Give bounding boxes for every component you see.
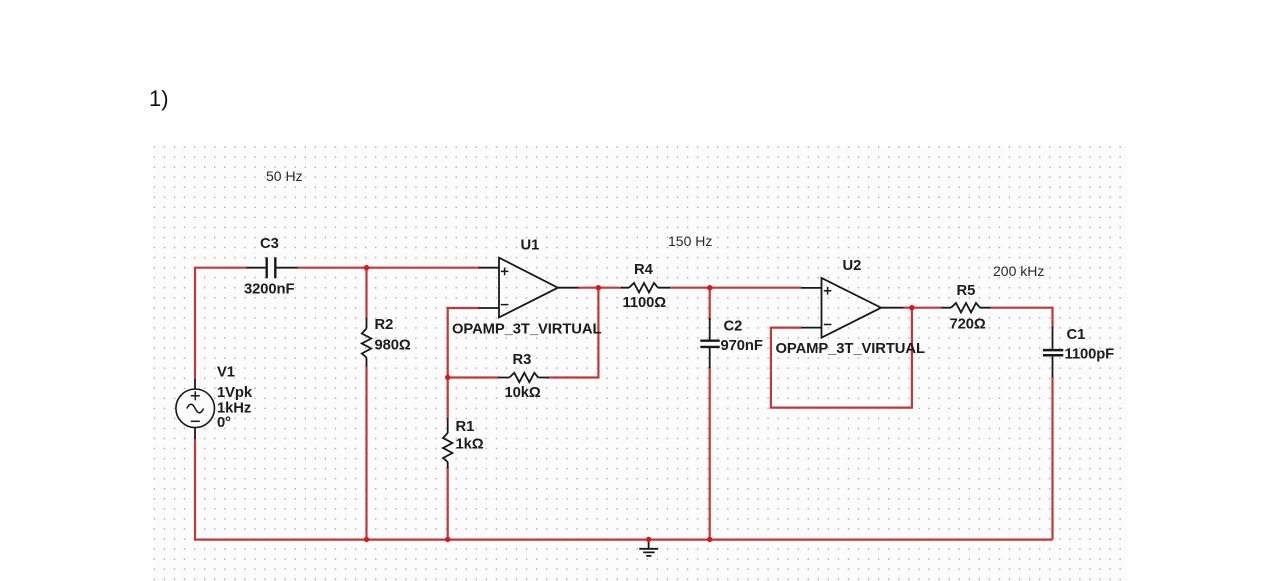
wire: R2 branch top xyxy=(365,268,367,319)
svg-text:150 Hz: 150 Hz xyxy=(668,233,712,249)
svg-text:980Ω: 980Ω xyxy=(375,338,411,354)
node: junction C3/R2 xyxy=(364,265,369,270)
schematic canvas xyxy=(153,146,1127,581)
op-amp U2 xyxy=(801,278,903,338)
svg-text:U1: U1 xyxy=(521,238,540,254)
wire: R5 to C1 branch xyxy=(990,308,1053,328)
node: junction R2/rail xyxy=(364,537,369,542)
svg-text:V1: V1 xyxy=(217,365,235,381)
svg-text:50 Hz: 50 Hz xyxy=(266,168,303,184)
svg-text:R5: R5 xyxy=(957,283,976,299)
ground xyxy=(639,539,658,556)
svg-text:1100pF: 1100pF xyxy=(1065,347,1115,363)
node: junction R1/rail xyxy=(445,537,450,542)
svg-text:R3: R3 xyxy=(513,352,532,368)
wire: R4 to U2 + input xyxy=(670,287,803,289)
capacitor C3 xyxy=(247,257,298,278)
wire: U1 inverting input to feedback node xyxy=(448,308,480,419)
node: junction U1 output/feedback xyxy=(596,285,601,290)
capacitor C2 xyxy=(700,318,719,368)
svg-text:200 kHz: 200 kHz xyxy=(993,263,1044,279)
wire: U1 output to R4 xyxy=(578,287,622,289)
svg-text:C1: C1 xyxy=(1067,327,1086,343)
wire: C2 branch top xyxy=(709,288,711,320)
node: junction U2 output/feedback xyxy=(909,305,914,310)
svg-text:R1: R1 xyxy=(456,419,475,435)
node: junction C2/rail xyxy=(707,537,712,542)
resistor R3 xyxy=(499,373,549,382)
wire: C2 branch bottom xyxy=(709,367,711,539)
svg-text:10kΩ: 10kΩ xyxy=(505,385,541,401)
resistor R4 xyxy=(621,283,670,292)
svg-text:U2: U2 xyxy=(843,258,862,274)
resistor R2 xyxy=(362,318,371,367)
wire: R3 left connection xyxy=(448,376,500,378)
svg-text:1kΩ: 1kΩ xyxy=(456,437,484,453)
wire: C3 to U1 + input xyxy=(297,267,480,269)
node: junction ground/rail xyxy=(646,537,651,542)
wire: V1 bottom to ground rail xyxy=(195,438,1053,539)
svg-text:1Vpk: 1Vpk xyxy=(217,385,253,401)
svg-text:OPAMP_3T_VIRTUAL: OPAMP_3T_VIRTUAL xyxy=(776,341,925,357)
node: junction R3/R1/U1 inverting xyxy=(445,375,450,380)
svg-text:R2: R2 xyxy=(375,317,394,333)
svg-text:1): 1) xyxy=(149,86,169,111)
AC source V1 xyxy=(176,379,215,439)
svg-text:R4: R4 xyxy=(634,262,654,278)
svg-text:970nF: 970nF xyxy=(721,338,763,354)
svg-text:0°: 0° xyxy=(217,415,231,431)
op-amp U1 xyxy=(479,258,579,318)
svg-text:OPAMP_3T_VIRTUAL: OPAMP_3T_VIRTUAL xyxy=(452,322,601,338)
wire: U2 output to R5 xyxy=(903,307,942,309)
svg-text:1100Ω: 1100Ω xyxy=(623,295,667,311)
svg-text:3200nF: 3200nF xyxy=(244,282,294,298)
svg-text:720Ω: 720Ω xyxy=(950,317,986,333)
wire: C1 bottom to rail xyxy=(1051,377,1053,540)
resistor R1 xyxy=(443,419,452,469)
wire: R3 right to U1 output xyxy=(548,288,599,378)
wire: U2 feedback loop xyxy=(771,308,912,408)
wire: R1 bottom to rail xyxy=(447,467,449,539)
wire: C3 row left segment xyxy=(194,267,247,269)
node: junction R4/C2 xyxy=(707,285,712,290)
capacitor C1 xyxy=(1043,327,1063,378)
wire: R2 branch bottom xyxy=(365,366,367,539)
resistor R5 xyxy=(942,303,991,312)
wire: top-left vertical from source to C3 row xyxy=(194,268,196,380)
svg-text:C3: C3 xyxy=(260,236,279,252)
svg-text:C2: C2 xyxy=(724,319,743,335)
